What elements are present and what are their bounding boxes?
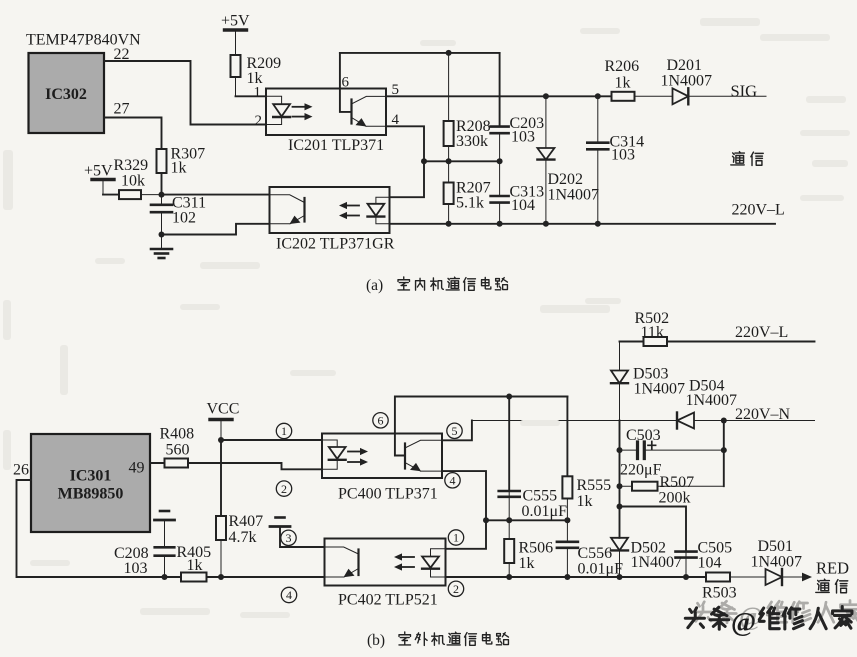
svg-text:2: 2 — [453, 582, 459, 596]
junction C505 / bottom rail — [683, 574, 689, 580]
wire IC201 pin6 to top rail — [340, 53, 352, 112]
wire C555 stem — [508, 397, 510, 492]
svg-text:0.01μF: 0.01μF — [578, 561, 624, 578]
svg-text:C555: C555 — [523, 488, 558, 505]
svg-text:200k: 200k — [659, 490, 691, 507]
svg-text:49: 49 — [129, 460, 145, 477]
svg-text:103: 103 — [511, 129, 535, 146]
wire bottom rail to PC402 pin4 — [207, 576, 325, 578]
junction right branch / C503 — [721, 447, 727, 453]
op-amp IC202 optocoupler TLP371GR — [270, 187, 395, 253]
junction main vertical / C503 — [617, 447, 623, 453]
resistor R329 10k — [119, 190, 162, 199]
svg-text:1N4007: 1N4007 — [631, 554, 683, 571]
wire PC400 pin6 up and right to R555 — [395, 397, 568, 456]
wire R209 to IC201 pin1 — [236, 95, 267, 97]
power +5V rail (left) — [92, 180, 114, 195]
IC202 internal LED — [368, 197, 390, 224]
pin label 3 (PC402) — [281, 530, 296, 545]
svg-text:104: 104 — [511, 197, 535, 214]
wire PC400 pin4 down to rail C — [442, 471, 486, 549]
resistor R207 5.1k — [444, 161, 454, 224]
capacitor C503 220uF electrolytic — [620, 442, 724, 459]
capacitor C208 103 — [155, 547, 175, 577]
svg-text:R503: R503 — [702, 584, 737, 601]
svg-text:1: 1 — [254, 85, 262, 101]
svg-text:4: 4 — [450, 474, 456, 488]
PC400 internal LED — [322, 440, 346, 469]
svg-text:6: 6 — [342, 75, 350, 91]
svg-text:1k: 1k — [577, 493, 593, 510]
junction top rail / R208 — [446, 50, 452, 56]
wire mid rail — [424, 160, 500, 162]
junction pin4 / mid rail — [421, 158, 427, 164]
junction rail / C313 — [497, 221, 503, 227]
svg-text:R408: R408 — [160, 426, 195, 443]
resistor R209 1k — [231, 55, 241, 96]
svg-text:5: 5 — [452, 424, 458, 438]
svg-text:1: 1 — [453, 531, 459, 545]
wire R408 to PC400 pin2 (jogged) — [188, 463, 322, 469]
svg-text:220V–N: 220V–N — [735, 406, 791, 423]
svg-text:220μF: 220μF — [620, 462, 662, 479]
wire IC301 pin49 to R408 — [150, 462, 165, 464]
svg-text:1N4007: 1N4007 — [661, 73, 713, 90]
wire +5V to R329 — [103, 194, 119, 196]
svg-text:27: 27 — [114, 101, 130, 118]
junction main vertical / R507 — [617, 483, 623, 489]
wire R555 stem corner — [566, 397, 568, 477]
wire PC400 pin5 to 220V-N line — [442, 421, 472, 441]
diode D502 1N4007 — [611, 538, 628, 577]
junction rail C / C555 — [506, 517, 512, 523]
svg-text:+5V: +5V — [221, 13, 250, 30]
svg-text:103: 103 — [124, 560, 148, 577]
wire bottom rail (b) right — [446, 576, 707, 578]
svg-text:RED: RED — [816, 559, 849, 578]
diode D202 1N4007 — [537, 96, 554, 224]
op-amp IC201 optocoupler TLP371 — [254, 75, 400, 155]
capacitor C505 104 — [676, 552, 697, 558]
PC402 LED emission arrows (left) — [394, 553, 414, 570]
svg-text:102: 102 — [172, 210, 196, 227]
wire R307 to node A — [161, 173, 163, 195]
svg-text:4.7k: 4.7k — [229, 529, 257, 546]
svg-text:(a): (a) — [366, 277, 383, 294]
output arrow RED — [800, 576, 804, 578]
pin label 2 (PC400) — [276, 481, 291, 496]
svg-text:1k: 1k — [615, 75, 631, 92]
PC400 LED emission arrows — [348, 448, 368, 466]
svg-text:1k: 1k — [519, 555, 535, 572]
junction node B (C311/ground) — [159, 232, 165, 238]
diode D503 1N4007 — [611, 342, 628, 421]
wire 220V-L line (b) — [667, 341, 815, 343]
watermark 头条@维修人家 — [685, 601, 857, 638]
junction C556 / bottom rail — [564, 574, 570, 580]
svg-text:C556: C556 — [578, 545, 613, 562]
wire main vertical (D503 to D502) — [619, 421, 621, 538]
svg-text:R206: R206 — [605, 58, 640, 75]
caption (b) — [367, 632, 508, 649]
IC202 internal phototransistor — [270, 195, 305, 224]
net label 通信 (communication) — [731, 152, 763, 166]
wire node A to IC202 collector — [162, 194, 270, 196]
IC201 internal LED — [266, 96, 290, 124]
svg-text:104: 104 — [698, 555, 722, 572]
PC400 internal phototransistor — [405, 440, 442, 471]
svg-text:5.1k: 5.1k — [456, 195, 484, 212]
pin label 1 (PC400) — [276, 423, 291, 438]
IC301 microcontroller MB89850 — [31, 434, 150, 532]
svg-text:103: 103 — [611, 147, 635, 164]
svg-text:6: 6 — [378, 414, 384, 428]
diode D501 1N4007 — [730, 569, 800, 585]
svg-text:3: 3 — [286, 531, 292, 545]
wire IC301 pin26 to bottom rail — [17, 480, 182, 577]
caption (a) — [366, 277, 507, 294]
svg-text:220V–L: 220V–L — [735, 324, 788, 341]
resistor R405 1k — [181, 573, 207, 582]
wire C503/R507 right branch up to 220V-N — [723, 421, 725, 487]
diode D201 1N4007 — [673, 88, 767, 104]
wire VCC to PC400 pin1 — [221, 439, 322, 441]
svg-text:1k: 1k — [187, 557, 203, 574]
wire C505 top branch — [620, 507, 687, 552]
svg-text:+5V: +5V — [84, 163, 113, 180]
resistor R507 200k — [620, 482, 724, 491]
junction mid rail / R208-R207 — [446, 158, 452, 164]
capacitor C555 0.01uF — [499, 491, 520, 497]
svg-text:1k: 1k — [171, 160, 187, 177]
svg-text:1N4007: 1N4007 — [751, 554, 803, 571]
resistor R407 4.7k — [216, 516, 226, 577]
junction 220V-N / C503 branch — [721, 418, 727, 424]
junction pin6 wire / C555 — [506, 394, 512, 400]
svg-text:@: @ — [731, 607, 756, 637]
C505 lower stem — [685, 558, 687, 577]
svg-text:PC400 TLP371: PC400 TLP371 — [338, 486, 438, 503]
capacitor C311 102 — [151, 195, 172, 235]
pin label 4 (PC402 side) — [281, 587, 296, 602]
svg-text:1: 1 — [281, 424, 287, 438]
svg-text:R506: R506 — [519, 540, 554, 557]
resistor R502 11k — [644, 337, 668, 346]
junction VCC / pin1 wire — [218, 437, 224, 443]
svg-text:R407: R407 — [229, 513, 264, 530]
resistor R555 1k — [562, 476, 572, 520]
pin label 5 (PC400) — [447, 423, 462, 438]
op-amp PC402 optocoupler TLP521 — [325, 539, 446, 609]
svg-text:2: 2 — [281, 482, 287, 496]
wire IC201 pin4 down to mid rail — [386, 126, 424, 161]
wire 220V-L rail (circuit a) — [390, 223, 776, 225]
wire IC201 pin5 to R206 — [386, 95, 612, 97]
junction rail / C314 — [595, 221, 601, 227]
svg-text:SIG: SIG — [731, 82, 758, 101]
junction SIG wire / C314 — [595, 93, 601, 99]
IC201 LED emission arrows — [293, 103, 313, 120]
IC202 LED emission arrows (left) — [339, 202, 359, 219]
ground (circuit a) — [151, 235, 172, 259]
svg-text:IC201 TLP371: IC201 TLP371 — [288, 137, 384, 154]
svg-text:IC302: IC302 — [45, 86, 87, 103]
ground (above C208) — [155, 511, 175, 547]
junction rail C / pin4 vertical — [483, 517, 489, 523]
svg-text:R507: R507 — [660, 474, 695, 491]
resistor R503 — [706, 573, 730, 582]
wire IC302 pin22 to IC201 pin2 — [104, 61, 266, 125]
svg-text:PC402 TLP521: PC402 TLP521 — [338, 592, 438, 609]
resistor R506 1k — [504, 520, 514, 577]
wire rail C — [486, 519, 567, 521]
svg-text:2: 2 — [255, 113, 263, 129]
svg-text:D201: D201 — [667, 57, 703, 74]
svg-text:330k: 330k — [456, 133, 488, 150]
wire R502 top line — [620, 341, 644, 343]
IC201 internal phototransistor — [352, 96, 387, 126]
pin label 4 (PC400) — [445, 473, 460, 488]
svg-text:1N4007: 1N4007 — [634, 381, 686, 398]
power VCC rail — [210, 420, 232, 441]
pin label 1 (PC402) — [448, 530, 463, 545]
svg-text:(b): (b) — [367, 632, 385, 649]
PC402 internal phototransistor — [325, 547, 359, 577]
junction main vertical / C505 branch — [617, 504, 623, 510]
svg-text:1N4007: 1N4007 — [686, 392, 738, 409]
svg-text:MB89850: MB89850 — [58, 486, 124, 503]
resistor R307 1k — [157, 149, 167, 173]
svg-text:11k: 11k — [641, 324, 664, 341]
wire top rail — [340, 52, 500, 54]
svg-text:R329: R329 — [114, 157, 149, 174]
capacitor C314 103 — [587, 96, 608, 224]
resistor R208 330k — [444, 53, 454, 161]
svg-text:R555: R555 — [577, 477, 612, 494]
svg-text:VCC: VCC — [207, 401, 240, 418]
PC402 internal LED — [422, 549, 445, 577]
junction node A (R307/R329/C311) — [159, 192, 165, 198]
junction D502 / bottom rail — [617, 574, 623, 580]
op-amp PC400 optocoupler TLP371 — [322, 434, 442, 503]
junction rail / R207 — [446, 221, 452, 227]
wire VCC stem down to R407 — [220, 440, 222, 516]
wire top rail corner down to C203 — [499, 53, 501, 127]
pin label 2 (PC402) — [448, 581, 463, 596]
svg-text:26: 26 — [13, 462, 29, 479]
capacitor C203 103 — [491, 127, 509, 162]
svg-text:IC301: IC301 — [70, 468, 112, 485]
svg-text:1N4007: 1N4007 — [548, 187, 600, 204]
svg-text:220V–L: 220V–L — [732, 202, 785, 219]
svg-text:560: 560 — [166, 442, 190, 459]
pin label 6 (PC400) — [373, 413, 388, 428]
wire node B to IC202 emitter — [162, 224, 270, 235]
C555 lower stem — [508, 497, 510, 521]
wire ground to PC402 pin3 — [280, 527, 325, 548]
svg-text:IC202 TLP371GR: IC202 TLP371GR — [276, 236, 395, 253]
svg-text:10k: 10k — [121, 173, 145, 190]
svg-text:4: 4 — [286, 588, 292, 602]
junction mid rail / C203-C313 — [497, 158, 503, 164]
resistor R206 1k — [612, 92, 673, 101]
power +5V rail (top) — [225, 30, 247, 55]
svg-text:D501: D501 — [758, 538, 794, 555]
net label RED 通信 — [816, 559, 849, 594]
junction R506 / bottom rail — [506, 574, 512, 580]
junction R407 / bottom rail — [218, 574, 224, 580]
junction rail / D202 — [543, 221, 549, 227]
svg-text:0.01μF: 0.01μF — [522, 503, 568, 520]
junction C208 / bottom rail — [162, 574, 168, 580]
svg-text:C503: C503 — [626, 427, 661, 444]
IC302 microcontroller TEMP47P840VN — [26, 32, 141, 134]
wire IC202 anode to mid rail — [390, 161, 425, 197]
diode D504 1N4007 — [472, 413, 815, 429]
ground (above pin 3) — [270, 518, 290, 548]
resistor R408 560 — [165, 459, 189, 468]
svg-text:D202: D202 — [548, 171, 584, 188]
junction pin5 wire / D202 — [543, 93, 549, 99]
capacitor C556 0.01uF — [557, 520, 578, 577]
capacitor C313 104 — [491, 161, 509, 224]
wire IC302 pin27 to R307 — [104, 118, 162, 150]
junction rail C / R555-C556 — [564, 517, 570, 523]
